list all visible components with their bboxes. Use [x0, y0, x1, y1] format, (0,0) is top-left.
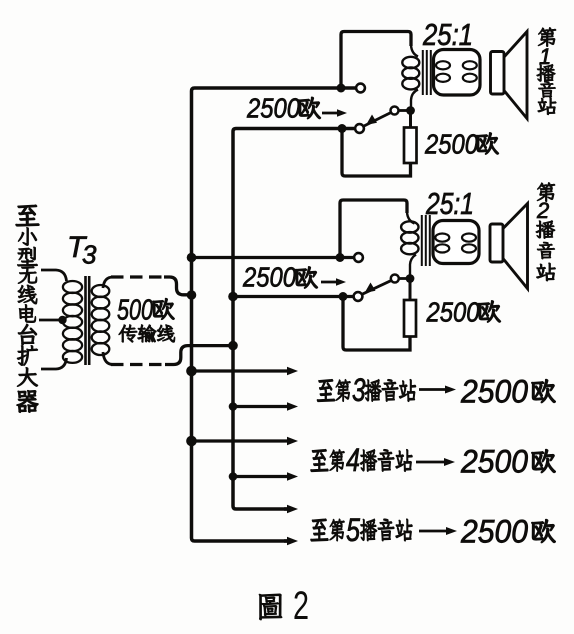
- arrow to S2: [321, 281, 338, 284]
- wire station 3 tap A: [192, 369, 290, 372]
- svg-text:2500: 2500: [460, 444, 528, 480]
- transformer T3: [39, 231, 113, 369]
- resistor R1 2500 ohm: [404, 128, 417, 164]
- wire S2 lower contact: [233, 295, 354, 298]
- wire junction to R2: [409, 279, 412, 301]
- label 至第5播音站 (to station 5): [311, 512, 413, 548]
- junction bus A / U1 upper contact wire: [337, 84, 346, 93]
- junction bus B / station 3: [229, 402, 238, 411]
- svg-text:25:1: 25:1: [425, 186, 474, 221]
- label 2500欧 (station 3): [460, 374, 555, 410]
- wire bus B (right vertical distribution wire): [233, 129, 354, 510]
- arrow station 3: [419, 388, 447, 391]
- switch S2 upper contact: [354, 253, 363, 262]
- arrowhead bus A to station 5: [284, 539, 289, 543]
- label 2500欧 (S2 tap): [242, 262, 317, 293]
- switch S2 lower contact: [354, 292, 363, 301]
- label 2500欧 (station 4): [460, 444, 555, 480]
- switch S1 upper contact: [356, 84, 365, 93]
- switch S1 arm: [364, 107, 409, 127]
- wire transmission line bottom (dashed): [111, 363, 168, 366]
- wire station 4 tap A: [192, 439, 290, 442]
- wire station 4 tap B: [233, 475, 289, 478]
- junction S1 arm / R1 / U1 primary: [406, 106, 415, 115]
- junction U2 loop / upper wire: [336, 253, 345, 262]
- wire station 3 tap B: [233, 405, 289, 408]
- speaker LS2: [490, 204, 528, 289]
- wire transmission line top (dashed): [111, 275, 167, 278]
- junction bus B / line: [228, 341, 238, 351]
- wire S1 lower contact + R1 bottom loop: [342, 129, 411, 177]
- junction lower contact wire: [338, 124, 347, 133]
- wire U2 upper contact: [193, 256, 355, 259]
- svg-text:2500: 2500: [246, 93, 300, 124]
- label 至第4播音站 (to station 4): [311, 442, 413, 478]
- wire loop U2 top: [340, 200, 407, 255]
- svg-text:2500: 2500: [460, 374, 528, 410]
- transformer U1 25:1: [402, 45, 480, 108]
- junction lower wire / R2 loop: [339, 292, 348, 301]
- label 第2播音站 (speaker station 2): [536, 183, 556, 281]
- wire loop U1 top: [341, 32, 411, 86]
- arrow station 4: [416, 461, 446, 464]
- resistor R2 2500 ohm: [404, 300, 416, 337]
- svg-text:2500: 2500: [426, 297, 480, 328]
- junction bus B / U2 lower wire: [228, 292, 238, 302]
- svg-text:500: 500: [117, 295, 153, 327]
- svg-text:2500: 2500: [242, 262, 296, 293]
- arrow station 5: [419, 530, 448, 533]
- wire top hook to bus A: [164, 277, 190, 295]
- svg-text:2500: 2500: [424, 129, 478, 160]
- wire R2 bottom loop: [343, 297, 410, 351]
- label R2 2500欧: [426, 297, 501, 328]
- junction bus B / station 4: [229, 472, 238, 481]
- caption 圖 2 (Figure 2): [259, 584, 309, 628]
- arrow to S1: [322, 112, 339, 115]
- junction bus A / line: [187, 290, 197, 300]
- wire bus A (left vertical distribution wire): [192, 88, 357, 541]
- switch S2 arm: [362, 275, 408, 295]
- junction bus A / U2 upper wire: [187, 253, 197, 263]
- label 第1播音站 (speaker station 1): [537, 28, 556, 115]
- label 500欧 传输线 (500-ohm transmission line): [117, 295, 175, 343]
- junction S2 arm / R2 / U2 primary: [406, 274, 415, 283]
- svg-text:4: 4: [346, 442, 360, 478]
- svg-text:25:1: 25:1: [422, 17, 473, 52]
- label 2500欧 (S1 tap): [246, 93, 320, 124]
- svg-text:2500: 2500: [460, 514, 528, 550]
- transformer U2 25:1: [401, 212, 479, 276]
- label R1 2500欧: [424, 129, 498, 160]
- svg-text:2: 2: [536, 198, 549, 223]
- wire junction to R1: [409, 111, 412, 128]
- svg-text:3: 3: [82, 240, 97, 270]
- svg-text:3: 3: [352, 372, 366, 408]
- speaker LS1: [491, 32, 528, 119]
- svg-text:2: 2: [293, 584, 309, 628]
- junction bus A / station 4: [186, 436, 197, 447]
- switch S1 lower contact: [355, 124, 364, 133]
- wire bottom hook to bus B: [165, 346, 230, 365]
- label 至小型无线电台扩大器 (to small radio-station amplifier): [16, 205, 39, 412]
- junction bus A / station 3: [186, 366, 197, 377]
- arrowhead bus B to station 5: [284, 507, 289, 511]
- svg-text:5: 5: [346, 512, 360, 548]
- label 2500欧 (station 5): [460, 514, 555, 550]
- label 至第3播音站 (to station 3): [317, 372, 416, 408]
